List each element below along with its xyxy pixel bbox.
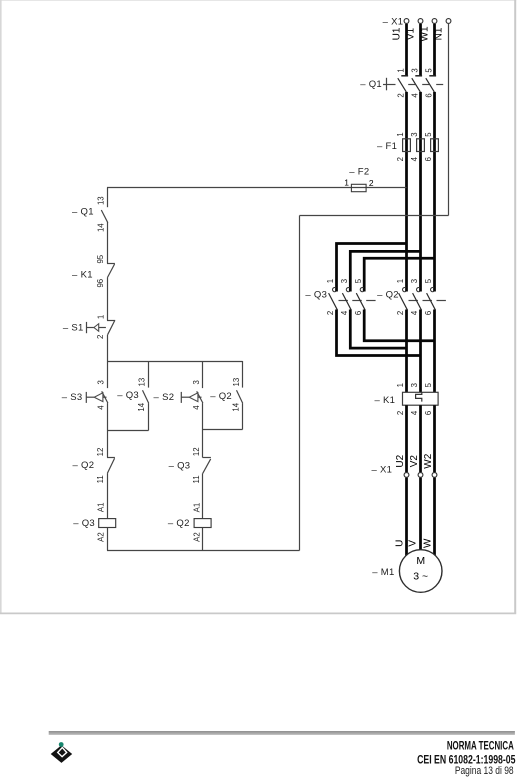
wire control feed from L1 through F2 to rail xyxy=(107,187,407,189)
pin numbers Q3 coil A1 / A2 xyxy=(97,503,106,542)
wire tap L3 to Q3:5 xyxy=(364,258,434,291)
wire X1:V2 to motor V xyxy=(419,478,422,550)
node V2 xyxy=(409,455,420,468)
pin numbers Q2 NC 12 / 11 xyxy=(96,448,105,484)
svg-text:3: 3 xyxy=(410,132,419,136)
svg-text:2: 2 xyxy=(369,178,374,188)
footer text Pagina 13 di 98 xyxy=(455,765,514,777)
svg-text:96: 96 xyxy=(96,279,105,288)
svg-text:– Q1: – Q1 xyxy=(72,207,94,218)
pin numbers K1 1,3,5 / 2,4,6 xyxy=(396,382,433,415)
svg-text:14: 14 xyxy=(231,402,240,411)
svg-text:4: 4 xyxy=(410,156,419,161)
wire phase L2 Q1:4 to Q2:3 (through F1) xyxy=(419,92,422,292)
svg-text:2: 2 xyxy=(397,93,406,97)
wire S3:4 to Q2:12 xyxy=(107,403,109,457)
wire neutral return to N1 xyxy=(300,215,449,217)
svg-text:W2: W2 xyxy=(423,453,434,468)
svg-text:4: 4 xyxy=(192,405,201,410)
svg-text:W: W xyxy=(422,538,433,548)
pin numbers Q3 aux 13 / 14 xyxy=(137,378,147,412)
svg-text:11: 11 xyxy=(192,475,201,483)
svg-text:2: 2 xyxy=(326,311,335,315)
wire Q3:2 to L2 (phase swap) xyxy=(337,310,421,356)
wire Q3:11 to Q2 coil A1 xyxy=(202,473,204,518)
interlock contact Q3 12-11 (NC) xyxy=(169,458,211,474)
svg-text:5: 5 xyxy=(424,382,433,387)
thermal overload relay K1 xyxy=(374,392,438,406)
svg-text:2: 2 xyxy=(396,311,405,315)
svg-text:6: 6 xyxy=(425,93,434,97)
wire phase L1 X1:U1 to Q1:1 xyxy=(405,24,408,76)
svg-text:11: 11 xyxy=(96,475,105,483)
svg-text:1: 1 xyxy=(326,279,335,283)
wire tap L2 to Q3:3 xyxy=(350,251,420,291)
svg-text:6: 6 xyxy=(424,311,433,315)
svg-text:1: 1 xyxy=(396,383,405,387)
svg-text:– S2: – S2 xyxy=(154,392,175,403)
pushbutton S1 stop (NC) xyxy=(63,321,115,335)
svg-text:1: 1 xyxy=(396,132,405,136)
svg-text:– Q2: – Q2 xyxy=(168,518,190,529)
svg-text:1: 1 xyxy=(344,178,349,188)
svg-text:5: 5 xyxy=(424,278,433,283)
wire phase L1 Q1:2 to Q2:1 (through F1) xyxy=(405,92,408,292)
svg-text:2: 2 xyxy=(396,157,405,161)
svg-text:– Q3: – Q3 xyxy=(73,518,95,529)
svg-text:– X1: – X1 xyxy=(371,464,392,475)
contactor coil Q3 A1-A2 xyxy=(73,518,115,529)
svg-text:– Q2: – Q2 xyxy=(73,460,95,471)
motor terminal W xyxy=(422,538,433,548)
wire phase L3 X1:W1 to Q1:5 xyxy=(433,24,436,76)
pin numbers Q1 1,3,5 / 2,4,6 xyxy=(397,68,434,98)
svg-text:4: 4 xyxy=(410,410,419,415)
svg-text:12: 12 xyxy=(192,447,201,456)
footer text CEI EN 61082-1:1998-05 xyxy=(417,754,516,767)
svg-text:– Q2: – Q2 xyxy=(377,290,399,301)
pushbutton S3 start (NO) xyxy=(62,361,108,403)
pin numbers Q2 coil A1 / A2 xyxy=(192,503,201,542)
motor terminal U xyxy=(394,540,405,547)
svg-text:13: 13 xyxy=(96,196,105,205)
svg-text:6: 6 xyxy=(424,411,433,415)
svg-text:3: 3 xyxy=(410,279,419,283)
svg-text:– Q2: – Q2 xyxy=(210,391,232,402)
wire neutral return riser xyxy=(299,216,301,551)
wire Q1:14 to K1:95 xyxy=(107,222,109,263)
pin numbers Q3 NC 12 / 11 xyxy=(192,447,201,483)
wire Q2 coil A2 to neutral rail xyxy=(202,528,204,551)
wire S2:4 to Q3:12 xyxy=(202,403,204,457)
svg-text:14: 14 xyxy=(137,402,146,411)
terminal strip X1 (bottom) terminals U2 V2 W2 xyxy=(371,464,436,477)
svg-text:– S3: – S3 xyxy=(62,392,83,403)
node U1 xyxy=(391,27,402,40)
wire branch top rail xyxy=(107,361,243,363)
svg-text:A2: A2 xyxy=(192,532,201,542)
wire neutral return bottom rail xyxy=(107,550,300,552)
svg-text:4: 4 xyxy=(340,310,349,315)
circuit breaker Q1 (3-pole) xyxy=(360,76,443,92)
wire phase L2 K1:4 to X1:V2 xyxy=(419,405,422,472)
svg-text:U: U xyxy=(394,540,405,547)
wire Q2:14 rejoin to rail xyxy=(203,429,243,431)
svg-text:V2: V2 xyxy=(409,455,420,468)
svg-text:– Q3: – Q3 xyxy=(117,390,139,401)
wire control rail F2 to Q1:13 xyxy=(107,188,109,208)
wire Q3:4 to L1 (phase swap) xyxy=(350,310,406,349)
node W2 xyxy=(423,453,434,468)
node N1 xyxy=(433,27,444,40)
svg-text:U2: U2 xyxy=(395,454,406,467)
wire S1:2 to branch node xyxy=(107,335,109,361)
fuse F1 (3x) xyxy=(377,139,438,152)
auxiliary contact K1 95-96 (NC) xyxy=(72,264,115,281)
svg-text:6: 6 xyxy=(354,311,363,315)
wire Q3:14 rejoin to rail xyxy=(107,430,149,432)
pin numbers S3 3 / 4 xyxy=(96,380,105,410)
wire phase L1 Q2:2 to K1:1 xyxy=(405,310,408,393)
pin numbers F2 1 / 2 xyxy=(344,178,374,188)
wire phase L3 K1:6 to X1:W2 xyxy=(433,405,436,472)
svg-text:– F2: – F2 xyxy=(349,167,369,178)
svg-text:3: 3 xyxy=(96,380,105,384)
svg-text:– Q3: – Q3 xyxy=(305,289,327,300)
node U2 xyxy=(395,454,406,467)
wire neutral N1 vertical xyxy=(448,24,450,216)
pin numbers K1 aux 95 / 96 xyxy=(96,254,105,287)
auxiliary contact Q3 13-14 (NO, latch) xyxy=(117,361,148,431)
svg-text:U1: U1 xyxy=(391,27,402,40)
svg-text:3 ~: 3 ~ xyxy=(413,570,428,582)
svg-text:– M1: – M1 xyxy=(372,567,394,578)
svg-text:4: 4 xyxy=(410,310,419,315)
svg-text:13: 13 xyxy=(138,378,147,387)
svg-text:NORMA TECNICA: NORMA TECNICA xyxy=(447,740,514,753)
pin numbers Q2 aux 13 / 14 xyxy=(231,378,241,412)
svg-text:3: 3 xyxy=(340,279,349,283)
svg-text:3: 3 xyxy=(410,383,419,387)
svg-text:A1: A1 xyxy=(192,503,201,513)
pin numbers F1 1,3,5 / 2,4,6 xyxy=(396,132,433,162)
auxiliary contact Q2 13-14 (NO, latch) xyxy=(210,361,242,430)
wire Q3 coil A2 to neutral rail xyxy=(107,528,109,551)
wire phase L1 K1:2 to X1:U2 xyxy=(405,405,408,472)
svg-text:– Q1: – Q1 xyxy=(360,79,382,90)
svg-text:6: 6 xyxy=(424,157,433,161)
svg-text:A2: A2 xyxy=(97,532,106,542)
wire X1:W2 to motor W xyxy=(433,478,436,556)
svg-text:14: 14 xyxy=(96,223,105,232)
node W1 xyxy=(419,26,430,41)
wire X1:U2 to motor U xyxy=(405,478,408,556)
svg-text:5: 5 xyxy=(354,278,363,283)
svg-text:M: M xyxy=(416,555,425,567)
svg-text:2: 2 xyxy=(96,335,105,339)
svg-text:– K1: – K1 xyxy=(374,395,395,406)
svg-text:5: 5 xyxy=(424,132,433,137)
contactor Q3 main contacts (reversing) xyxy=(305,287,375,309)
svg-text:V: V xyxy=(407,540,418,547)
wire tap L1 to Q3:1 xyxy=(337,244,407,292)
svg-text:2: 2 xyxy=(396,411,405,415)
svg-text:12: 12 xyxy=(96,448,105,457)
svg-text:A1: A1 xyxy=(97,503,106,513)
wire Q3:6 to L3 xyxy=(364,310,434,341)
wire Q2:11 to Q3 coil A1 xyxy=(107,473,109,518)
svg-text:– F1: – F1 xyxy=(377,141,397,152)
svg-text:– K1: – K1 xyxy=(72,269,93,280)
svg-text:13: 13 xyxy=(232,378,241,387)
svg-text:5: 5 xyxy=(425,68,434,73)
pin numbers S2 3 / 4 xyxy=(192,380,201,410)
fuse F2 xyxy=(349,167,369,192)
node V1 xyxy=(405,27,416,40)
pin numbers Q2 1,3,5 / 2,4,6 xyxy=(396,278,433,315)
motor M1 (3-phase) xyxy=(372,550,442,593)
wire K1:96 to S1:1 xyxy=(107,278,109,321)
svg-text:3: 3 xyxy=(192,380,201,384)
svg-text:Pagina 13 di 98: Pagina 13 di 98 xyxy=(455,765,514,777)
contactor coil Q2 A1-A2 xyxy=(168,518,211,529)
footer separator bar xyxy=(49,731,515,735)
pin numbers Q1 aux 13 / 14 xyxy=(96,196,105,232)
motor terminal V xyxy=(407,540,418,547)
wire phase L3 Q1:6 to Q2:5 (through F1) xyxy=(433,92,436,292)
svg-text:1: 1 xyxy=(396,279,405,283)
wire phase L2 Q2:4 to K1:3 xyxy=(419,310,422,393)
terminal strip X1 (top) with terminals U1 V1 W1 N1 xyxy=(383,17,451,28)
pin numbers Q3 1,3,5 / 2,4,6 xyxy=(326,278,363,315)
svg-text:3: 3 xyxy=(411,68,420,72)
svg-text:4: 4 xyxy=(96,405,105,410)
svg-text:– S1: – S1 xyxy=(63,322,84,333)
wire phase L3 Q2:6 to K1:5 xyxy=(433,310,436,393)
svg-text:– X1: – X1 xyxy=(383,17,404,28)
contactor Q2 main contacts (forward) xyxy=(377,287,446,309)
svg-text:4: 4 xyxy=(411,93,420,98)
pin numbers S1 1 / 2 xyxy=(96,315,106,339)
svg-text:1: 1 xyxy=(97,315,106,319)
CEI logo xyxy=(51,742,72,763)
footer text NORMA TECNICA xyxy=(447,740,514,753)
pushbutton S2 start (NO) xyxy=(154,361,203,403)
wire phase L2 X1:V1 to Q1:3 xyxy=(419,24,422,76)
svg-text:95: 95 xyxy=(96,254,105,263)
svg-text:– Q3: – Q3 xyxy=(169,460,191,471)
svg-text:1: 1 xyxy=(397,68,406,72)
auxiliary contact Q1 13-14 (NO) xyxy=(72,207,108,223)
interlock contact Q2 12-11 (NC) xyxy=(73,458,115,474)
